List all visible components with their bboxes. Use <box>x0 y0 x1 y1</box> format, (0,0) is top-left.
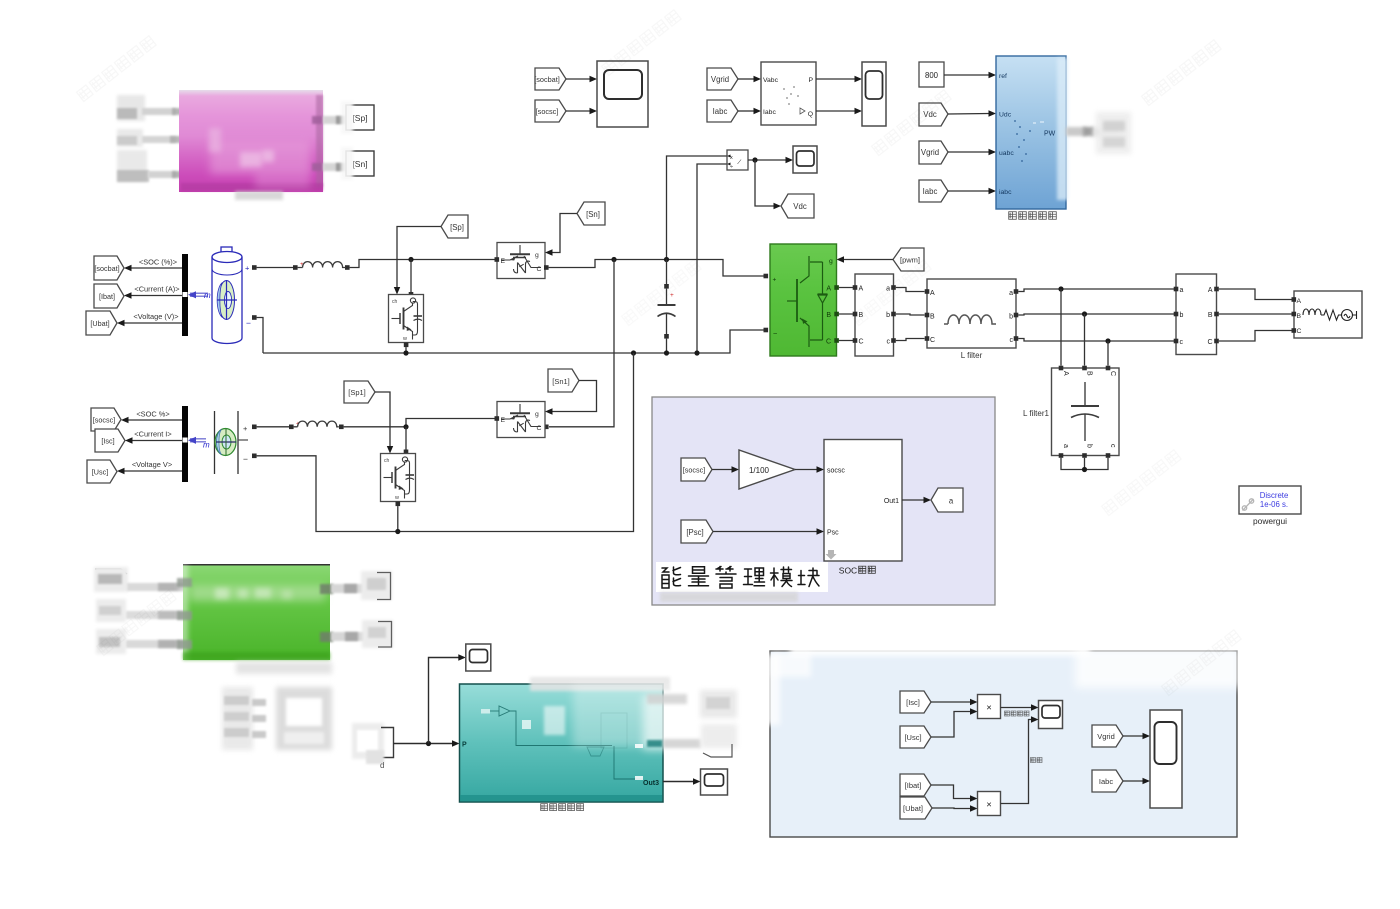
energy management area box <box>652 397 995 605</box>
from tag Iabc (top) <box>707 100 738 122</box>
constant 800 <box>919 62 944 87</box>
svg-text:[Psc]: [Psc] <box>686 528 703 537</box>
svg-text:powergui: powergui <box>1253 516 1287 526</box>
wire green block to goto H1 (blurred) <box>331 584 364 593</box>
bus selector 2 (supercap) <box>182 406 188 482</box>
scope Scope1 (SOC scope) <box>597 61 648 127</box>
wire inductor1 to DC+ node <box>350 257 495 268</box>
label supercap power (CJK) <box>1004 711 1029 716</box>
wire Q to Scope2 <box>816 108 862 114</box>
svg-text:C: C <box>1207 339 1212 346</box>
svg-text:[Usc]: [Usc] <box>904 733 921 742</box>
from tag [pwm] <box>893 248 924 271</box>
svg-text:[Ubat]: [Ubat] <box>90 319 109 328</box>
blurred watermark strip under EM title <box>660 592 798 602</box>
product block 1 (supercap power) <box>978 695 1001 719</box>
svg-text:g: g <box>829 258 833 265</box>
svg-text:d: d <box>380 761 384 770</box>
svg-text:×: × <box>986 703 992 714</box>
wire chopper2 w to supercap - rail <box>397 506 399 531</box>
SOC control subsystem <box>824 440 902 562</box>
from tag Iabc (monitor) <box>1092 770 1123 792</box>
wire phase b down to L filter1 B <box>1084 314 1086 366</box>
goto tag [Sp] <box>341 101 374 134</box>
blurred goto tag H2 <box>362 620 393 648</box>
wire phase a down to L filter1 A <box>1060 289 1062 366</box>
wire meas1 b to L filter B <box>896 314 925 315</box>
blurred goto tag d (Pgrid) <box>352 723 394 770</box>
wire [socsc] to gain <box>712 466 739 472</box>
svg-text:C: C <box>537 266 542 273</box>
wire supercap - to negative rail <box>257 353 634 534</box>
EM title text (CJK) <box>656 562 828 592</box>
svg-text:<Current I>: <Current I> <box>134 430 171 439</box>
phase line a <box>1018 286 1174 291</box>
scope Scope5 <box>701 769 728 795</box>
wire battery + to inductor1 <box>257 267 293 269</box>
three-phase source block <box>1292 291 1363 338</box>
wire inductor2 to node and IGBT4 E <box>344 419 495 430</box>
goto tag [Sn] <box>341 147 374 180</box>
svg-text:b: b <box>1180 312 1184 319</box>
from tag [Ibat] (monitor) <box>900 774 931 796</box>
wire [Sp1] to chopper2 gate <box>375 392 393 454</box>
blurred bus selector stack (lower) <box>222 687 266 750</box>
L filter1 block (C filter) <box>1052 366 1120 458</box>
wire [Ubat] to product2 <box>932 805 978 811</box>
svg-text:A: A <box>930 290 935 297</box>
caption powergui <box>1253 516 1287 526</box>
wire PWM output (blurred) <box>1066 127 1121 136</box>
DC link capacitor <box>658 260 676 354</box>
svg-text:<SOC (%)>: <SOC (%)> <box>139 258 177 267</box>
blurred from-tag G3 <box>96 629 126 654</box>
svg-text:SOC: SOC <box>839 566 857 576</box>
svg-text:c: c <box>1180 339 1184 346</box>
wire G3 to green block <box>126 640 185 648</box>
svg-text:[Sp]: [Sp] <box>352 113 367 123</box>
svg-text:<Current (A)>: <Current (A)> <box>134 285 179 294</box>
teal blurred output nub (lower) <box>647 739 701 748</box>
wire DC+ bus down to IGBT4 C <box>544 260 614 430</box>
wire goto d to P node <box>394 740 460 746</box>
teal top blur overlay <box>530 677 733 750</box>
blurred goto tag upper right of teal <box>700 690 737 718</box>
wire product1 to Scope6 <box>1001 704 1039 710</box>
from tag [Psc] <box>681 520 713 543</box>
inverter output ports <box>834 285 839 343</box>
wire meas1 c to L filter C <box>896 339 925 341</box>
svg-text:Vdc: Vdc <box>793 202 807 211</box>
wire meas2 A to source A <box>1219 289 1292 300</box>
wire Iabc to PQ block <box>738 108 761 114</box>
scope Scope4 <box>466 644 491 671</box>
svg-text:B: B <box>1208 312 1213 319</box>
wire pink block to [Sp] (blurred) <box>323 116 346 124</box>
svg-text:ch: ch <box>384 458 390 464</box>
svg-text:Vgrid: Vgrid <box>921 148 939 157</box>
svg-text:−: − <box>773 329 778 338</box>
wire [Sn] to IGBT2 gate <box>545 214 577 256</box>
chopper2 IGBT (supercap leg low) <box>381 454 416 507</box>
svg-text:Out1: Out1 <box>884 498 899 505</box>
svg-text:1/100: 1/100 <box>749 466 770 475</box>
wire [socsc] to Scope1 <box>566 108 597 114</box>
svg-text:Vgrid: Vgrid <box>1097 732 1115 741</box>
wire Vgrid to Scope7 <box>1123 733 1150 739</box>
svg-text:m: m <box>204 291 211 300</box>
wire product2 to Scope6 input2 <box>1001 716 1039 803</box>
phase line c <box>1018 338 1174 343</box>
from tag [Sn1] <box>548 369 579 392</box>
phase line b <box>1018 311 1174 316</box>
svg-text:A: A <box>1208 287 1213 294</box>
pink block output port nub 1 <box>312 116 323 124</box>
svg-text:C: C <box>826 339 831 346</box>
svg-text:PW: PW <box>1044 131 1056 138</box>
PQ power measurement block <box>761 62 816 125</box>
wire Vgrid to inverter control uabc <box>948 149 996 155</box>
caption inverter control (CJK) <box>1009 212 1057 220</box>
battery - port <box>252 315 257 320</box>
from tag Iabc (control) <box>919 180 948 202</box>
teal blurred output nub (upper) <box>647 694 687 704</box>
blurred from-tag G2 <box>96 599 126 622</box>
svg-text:L filter1: L filter1 <box>1023 409 1049 418</box>
green block input port nubs <box>177 578 192 649</box>
bus selector 1 (battery) <box>182 254 188 336</box>
svg-text:+: + <box>773 277 777 284</box>
wire Vgrid to PQ block <box>738 76 761 82</box>
svg-text:[Sp]: [Sp] <box>450 223 464 232</box>
blurred goto tag H1 <box>361 571 392 600</box>
svg-text:Vabc: Vabc <box>763 77 779 84</box>
svg-text:[socsc]: [socsc] <box>683 466 705 475</box>
goto tag a <box>931 488 963 512</box>
svg-text:C: C <box>1297 328 1302 335</box>
svg-text:B: B <box>930 314 935 321</box>
wire inverter B to meas1 B <box>839 313 855 315</box>
battery block <box>212 247 251 344</box>
svg-text:E: E <box>501 258 506 265</box>
IGBT4 (supercap leg high) <box>495 402 546 438</box>
blurred from-tag G1 (green subsystem input 1) <box>94 567 128 592</box>
svg-text:w: w <box>394 495 399 501</box>
wire P node up to Scope4 <box>429 654 466 743</box>
wire G2 to green block <box>126 611 185 619</box>
svg-text:−: − <box>246 318 251 328</box>
svg-text:Iabc: Iabc <box>763 109 776 116</box>
svg-text:[Ubat]: [Ubat] <box>903 804 923 813</box>
supercap - port <box>252 454 257 459</box>
blurred small block (lower) <box>276 687 332 750</box>
svg-text:a: a <box>1009 290 1013 297</box>
svg-text:g: g <box>535 411 539 418</box>
IGBT2 (battery leg high) <box>495 243 549 279</box>
wire [Sn1] to IGBT4 gate <box>545 381 597 415</box>
battery m bus wire <box>188 291 211 300</box>
from tag Vgrid (control) <box>919 141 948 164</box>
svg-text:Q: Q <box>808 111 813 118</box>
from tag [Isc] (monitor) <box>900 691 931 713</box>
wire Iabc to inverter control iabc <box>948 188 996 194</box>
svg-text:ref: ref <box>999 73 1007 80</box>
supercap m bus wire <box>188 437 210 450</box>
svg-text:[Sn]: [Sn] <box>586 210 600 219</box>
from tag Vdc (control) <box>919 103 948 126</box>
svg-text:c: c <box>1010 337 1014 344</box>
low pass filter subsystem (teal) <box>460 684 664 802</box>
svg-text:Psc: Psc <box>827 530 839 537</box>
wire [pwm] to inverter g <box>837 256 894 262</box>
svg-text:b: b <box>1086 444 1093 448</box>
powergui block <box>1239 486 1301 514</box>
goto tag [socbat] (battery SOC) <box>94 256 124 280</box>
from tag [socbat] <box>534 68 566 90</box>
inductor1 (battery boost inductor) <box>293 261 350 270</box>
wire [Isc] to product1 <box>931 699 978 705</box>
blue box blur patches <box>764 644 1240 725</box>
wire DC+ sense into divide input 1 <box>667 156 728 260</box>
blurred from-tag T1 (pink subsystem input 1) <box>117 95 145 121</box>
caption low pass filter (CJK) <box>541 804 584 811</box>
green subsystem block (blurred) <box>179 564 330 660</box>
wire SOC% to [socsc] <box>121 410 183 424</box>
svg-text:−: − <box>243 454 248 464</box>
svg-text:a: a <box>949 497 954 506</box>
wire phase c down to L filter1 C <box>1107 341 1109 366</box>
svg-text:P: P <box>808 77 813 84</box>
svg-text:[Isc]: [Isc] <box>906 698 920 707</box>
blurred from-tag T3 (pink subsystem input 3) <box>117 150 149 182</box>
svg-text:m: m <box>203 441 210 450</box>
gain 1/100 <box>739 450 795 489</box>
DC- bus wire <box>263 328 768 356</box>
svg-text:<Voltage V>: <Voltage V> <box>132 460 172 469</box>
svg-text:a: a <box>1180 287 1184 294</box>
scope Scope6 <box>1039 701 1063 729</box>
svg-text:[Usc]: [Usc] <box>92 468 108 477</box>
goto tag Vdc <box>781 194 814 218</box>
svg-text:A: A <box>826 286 831 293</box>
wire supercap + to inductor2 <box>257 426 289 428</box>
svg-text:[Ibat]: [Ibat] <box>905 781 922 790</box>
svg-text:800: 800 <box>925 71 939 80</box>
label battery power (CJK) <box>1030 757 1042 762</box>
svg-text:B: B <box>826 312 831 319</box>
wire blurred T1 to pink block <box>142 108 202 115</box>
wire DC- sense into divide input 2 <box>697 164 727 353</box>
svg-text:[Sn1]: [Sn1] <box>552 377 570 386</box>
svg-text:[socbat]: [socbat] <box>534 75 560 84</box>
scope Scope7 (grid scope) <box>1150 710 1182 808</box>
svg-text:[Isc]: [Isc] <box>101 437 114 446</box>
svg-text:A: A <box>859 286 864 293</box>
svg-text:1e-06 s.: 1e-06 s. <box>1260 500 1288 509</box>
L filter block <box>925 279 1019 348</box>
svg-text:[socsc]: [socsc] <box>93 416 115 425</box>
svg-text:a: a <box>1062 444 1069 448</box>
svg-text:b: b <box>1009 314 1013 321</box>
caption L filter1 <box>1023 409 1049 418</box>
from tag [Usc] (monitor) <box>900 726 931 748</box>
goto tag [Ubat] <box>86 311 117 335</box>
product block 2 (battery power) <box>978 792 1001 816</box>
svg-text:[socsc]: [socsc] <box>536 107 559 116</box>
blurred from-tag T2 (pink subsystem input 2) <box>117 129 143 147</box>
svg-text:w: w <box>402 336 407 342</box>
wire Current I to [Isc] <box>125 430 183 444</box>
svg-text:[pwm]: [pwm] <box>900 256 920 265</box>
wire blurred T2 to pink block <box>142 136 202 143</box>
from tag [socsc] (EM) <box>681 458 712 481</box>
wire meas2 C to source C <box>1219 331 1292 342</box>
svg-text:Discrete: Discrete <box>1260 491 1289 500</box>
svg-text:socsc: socsc <box>827 468 845 475</box>
wire node down to chopper2 top port <box>404 427 409 454</box>
inverter control subsystem (blue) <box>996 56 1068 209</box>
wire Current(A) bus selector to [Ibat] <box>124 285 183 299</box>
svg-text:<Voltage (V)>: <Voltage (V)> <box>133 312 178 321</box>
svg-text:P: P <box>462 742 467 749</box>
wire meas1 a to L filter A <box>896 288 925 292</box>
svg-text:c: c <box>887 339 891 346</box>
pink block output port nub 2 <box>312 163 323 171</box>
svg-text:+: + <box>245 264 250 273</box>
pink subsystem block (blurred) <box>179 90 323 192</box>
wire [Psc] to SOC control <box>713 528 824 534</box>
svg-text:Udc: Udc <box>999 112 1012 119</box>
svg-text:E: E <box>501 417 506 424</box>
svg-text:L filter: L filter <box>961 351 983 360</box>
caption L filter <box>961 351 983 360</box>
svg-text:B: B <box>1297 313 1302 320</box>
svg-text:C: C <box>930 337 935 344</box>
wire [socbat] to Scope1 <box>566 76 597 82</box>
svg-text:iabc: iabc <box>999 189 1012 196</box>
svg-text:+: + <box>243 424 248 433</box>
battery + port <box>252 265 257 270</box>
faint watermarks <box>77 10 1242 696</box>
svg-text:g: g <box>535 252 539 259</box>
supercapacitor block <box>215 411 249 474</box>
from tag Vgrid (monitor) <box>1092 725 1123 747</box>
divide block (Vdc measurement) <box>727 150 748 171</box>
svg-text:<SOC %>: <SOC %> <box>136 410 169 419</box>
wire P to Scope2 <box>816 76 862 82</box>
wire gain to SOC control <box>795 466 824 472</box>
from tag [Sp] <box>441 215 468 238</box>
svg-text:B: B <box>1086 371 1093 376</box>
caption SOC control <box>839 566 876 576</box>
blurred goto tag lower right of teal <box>701 724 737 757</box>
svg-text:A: A <box>1062 371 1069 376</box>
svg-text:c: c <box>1109 444 1116 448</box>
svg-text:b: b <box>886 312 890 319</box>
svg-text:[Sp1]: [Sp1] <box>348 388 366 397</box>
wire Vdc to inverter control Udc <box>948 110 996 116</box>
wire inverter C to meas1 C <box>839 340 855 342</box>
svg-text:Vgrid: Vgrid <box>711 75 729 84</box>
svg-text:[socbat]: [socbat] <box>94 264 119 273</box>
wire Out3 to Scope5 <box>663 778 701 784</box>
svg-text:C: C <box>1109 371 1116 376</box>
goto tag [Ibat] <box>94 284 124 308</box>
wire L filter1 abc neutral tie <box>1061 458 1108 472</box>
wire [Usc] to product1 <box>931 708 978 737</box>
wire green block to goto H2 (blurred) <box>331 632 365 641</box>
wire divide output to Scope3 <box>748 157 793 163</box>
three-phase measurement 2 <box>1174 274 1219 355</box>
wire pink block to [Sn] (blurred) <box>323 163 346 171</box>
svg-text:uabc: uabc <box>999 150 1014 157</box>
svg-text:C: C <box>859 339 864 346</box>
goto tag [socsc] (supercap SOC) <box>91 408 121 431</box>
wire node to chopper1 top port <box>409 260 414 297</box>
wire inverter A to meas1 A <box>839 287 855 289</box>
supercap + port <box>252 425 257 430</box>
wire 800 to inverter control ref <box>944 72 996 78</box>
from tag [Sn] <box>577 202 605 225</box>
wire battery - to DC- bus <box>257 318 263 354</box>
wire blurred T3 to pink block <box>148 171 202 178</box>
from tag [socsc] <box>535 100 566 122</box>
svg-text:A: A <box>1297 298 1302 305</box>
three-phase inverter bridge (green) <box>770 244 837 356</box>
wire [Ibat] to product2 <box>931 785 978 802</box>
wire SOC(%) bus selector to [socbat] <box>124 258 183 272</box>
green block output port nubs <box>320 584 333 642</box>
chopper1 IGBT (battery leg low) <box>389 295 424 348</box>
wire meas2 B to source B <box>1219 313 1292 315</box>
scope Scope3 (Vdc scope) <box>793 146 817 173</box>
wire Out1 to a goto <box>902 497 931 503</box>
blurred caption under pink block <box>235 191 283 200</box>
goto tag [Usc] <box>87 460 117 483</box>
inductor2 (supercap inductor) <box>289 421 344 430</box>
from tag [Ubat] (monitor) <box>900 797 932 819</box>
wire Voltage V to [Usc] <box>117 460 183 474</box>
wire chopper1 w to DC- bus <box>405 347 407 353</box>
svg-text:[Sn]: [Sn] <box>352 159 367 169</box>
svg-text:×: × <box>986 800 992 811</box>
monitoring area box (light blue) <box>770 651 1237 837</box>
svg-text:Iabc: Iabc <box>923 187 938 196</box>
wire divide output to Vdc goto <box>755 160 781 209</box>
goto tag [Isc] <box>95 429 125 452</box>
scope Scope2 (PQ scope) <box>862 62 886 126</box>
wire [Sp] to chopper1 gate <box>394 227 441 295</box>
three-phase VI measurement 1 <box>853 274 896 356</box>
from tag Vgrid (top) <box>707 68 738 90</box>
wire Voltage(V) bus selector to [Ubat] <box>117 312 183 326</box>
from tag [Sp1] <box>344 381 375 403</box>
svg-text:C: C <box>537 425 542 432</box>
svg-text:[Ibat]: [Ibat] <box>99 292 115 301</box>
wire IGBT2 C to DC+ bus <box>549 257 769 278</box>
svg-text:ch: ch <box>392 299 398 305</box>
svg-text:Iabc: Iabc <box>1099 777 1113 786</box>
caption under green block (blurred) <box>236 662 332 674</box>
svg-text:Iabc: Iabc <box>713 107 728 116</box>
goto tag pwm (blurred) <box>1096 112 1131 154</box>
wire Iabc to Scope7 <box>1123 778 1150 784</box>
svg-text:Out3: Out3 <box>643 780 659 787</box>
wire G1 to green block <box>127 583 185 591</box>
